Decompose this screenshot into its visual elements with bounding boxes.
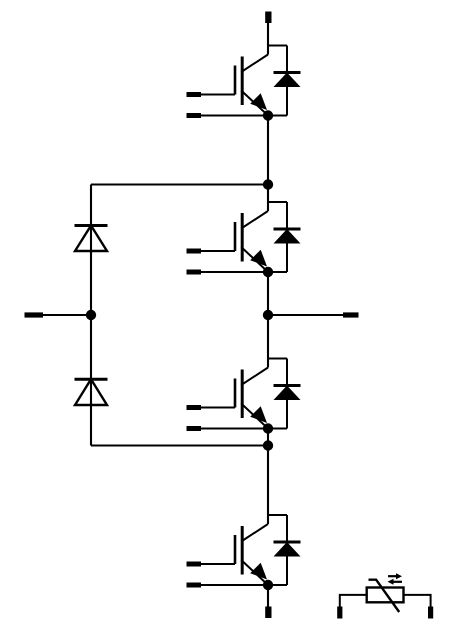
transistor Q3 (IGBT) xyxy=(235,368,268,429)
gate terminal stub Q1 xyxy=(187,92,202,97)
wire bus Q3-Q4 xyxy=(267,429,269,525)
diode D4 (freewheeling, antiparallel with Q4) xyxy=(268,515,301,585)
auxiliary emitter terminal stub Q4 xyxy=(187,583,202,588)
wire collector Q4 to D4 xyxy=(268,514,287,516)
diode D1 (freewheeling, antiparallel with Q1) xyxy=(268,46,301,116)
wire auxiliary emitter lead Q1 xyxy=(201,114,268,116)
junction node clamp bottom on bus xyxy=(263,440,273,450)
wire thermistor right lead xyxy=(404,595,431,607)
wire gate lead Q3 xyxy=(201,406,235,408)
junction node clamp top on bus xyxy=(263,179,273,189)
auxiliary emitter terminal stub Q2 xyxy=(187,270,202,275)
diode D3 (freewheeling, antiparallel with Q3) xyxy=(268,359,301,429)
wire collector Q3 to D3 xyxy=(268,357,287,359)
junction node emitter Q2 xyxy=(263,267,273,277)
junction node emitter Q3 xyxy=(263,423,273,433)
diode D2 (freewheeling, antiparallel with Q2) xyxy=(268,202,301,272)
gate terminal stub Q2 xyxy=(187,249,202,254)
terminal N (neutral) stub xyxy=(25,312,44,317)
junction node neutral on clamp branch xyxy=(86,310,96,320)
wire auxiliary emitter lead Q2 xyxy=(201,271,268,273)
wire neutral terminal lead xyxy=(43,314,91,316)
auxiliary emitter terminal stub Q1 xyxy=(187,113,202,118)
arrow bidirectional bottom (left-pointing) xyxy=(388,579,403,585)
wire auxiliary emitter lead Q4 xyxy=(201,584,268,586)
wire output to right terminal xyxy=(268,314,343,316)
wire bus Q1-Q2 xyxy=(267,116,269,212)
wire thermistor left lead xyxy=(340,595,367,607)
wire bus Q4-bottom xyxy=(267,585,269,607)
auxiliary emitter terminal stub Q3 xyxy=(187,426,202,431)
transistor Q1 (IGBT) xyxy=(235,55,268,116)
gate terminal stub Q4 xyxy=(187,562,202,567)
wire collector Q2 to D2 xyxy=(268,201,287,203)
terminal DC+ stub xyxy=(265,12,271,24)
wire gate lead Q2 xyxy=(201,250,235,252)
terminal DC- stub xyxy=(265,607,271,619)
thermistor RV1 diagonal stroke xyxy=(369,580,400,612)
junction node emitter Q4 xyxy=(263,580,273,590)
junction node midpoint output on bus xyxy=(263,310,273,320)
diode D6 (clamp, outline) xyxy=(75,379,108,405)
diode D5 (clamp, outline) xyxy=(75,226,108,252)
arrow bidirectional top (right-pointing) xyxy=(388,573,402,579)
terminal thermistor right stub xyxy=(428,607,433,619)
wire gate lead Q4 xyxy=(201,563,235,565)
wire auxiliary emitter lead Q3 xyxy=(201,427,268,429)
transistor Q4 (IGBT) xyxy=(235,524,268,585)
wire gate lead Q1 xyxy=(201,93,235,95)
wire bus Q2-Q3 xyxy=(267,272,269,368)
wire clamp bottom horizontal xyxy=(91,444,268,446)
wire clamp top horizontal xyxy=(91,183,268,185)
wire bus top xyxy=(267,23,269,55)
transistor Q2 (IGBT) xyxy=(235,211,268,272)
wire collector Q1 to D1 xyxy=(268,44,287,46)
junction node emitter Q1 xyxy=(263,110,273,120)
thermistor RV1 body xyxy=(367,588,404,603)
terminal thermistor left stub xyxy=(337,607,342,619)
gate terminal stub Q3 xyxy=(187,405,202,410)
terminal AC output stub xyxy=(343,312,359,317)
wire clamp branch vertical xyxy=(90,185,92,446)
